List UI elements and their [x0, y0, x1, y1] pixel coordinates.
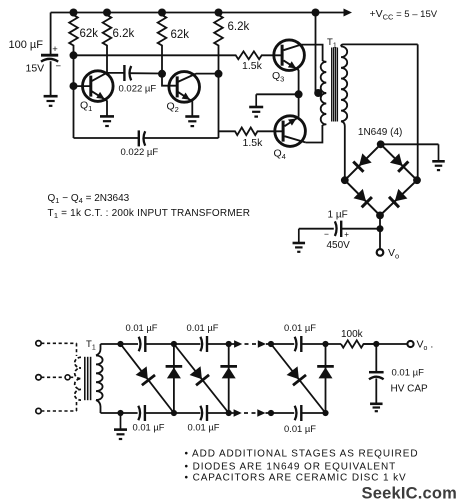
svg-text:0.022 µF: 0.022 µF [121, 147, 159, 158]
svg-text:+: + [52, 44, 58, 55]
svg-text:−: − [56, 61, 62, 72]
svg-text:T1: T1 [86, 339, 96, 352]
svg-text:HV CAP: HV CAP [391, 384, 429, 395]
svg-text:1N649 (4): 1N649 (4) [358, 127, 402, 138]
svg-text:6.2k: 6.2k [113, 28, 135, 40]
svg-text:+VCC = 5 – 15V: +VCC = 5 – 15V [370, 8, 438, 22]
svg-text:1.5k: 1.5k [243, 137, 264, 149]
svg-text:+: + [344, 230, 349, 239]
svg-text:0.01 µF: 0.01 µF [284, 423, 316, 434]
svg-text:Q4: Q4 [274, 148, 286, 162]
svg-text:Vo .: Vo . [417, 339, 434, 353]
svg-text:−: − [324, 229, 329, 239]
svg-text:0.022 µF: 0.022 µF [119, 84, 157, 95]
svg-text:• DIODES ARE 1N649 OR EQUIVALE: • DIODES ARE 1N649 OR EQUIVALENT [185, 462, 397, 473]
svg-text:6.2k: 6.2k [228, 21, 250, 33]
svg-text:62k: 62k [171, 29, 190, 41]
svg-text:Q1: Q1 [80, 100, 92, 114]
svg-text:0.01 µF: 0.01 µF [187, 322, 219, 333]
svg-text:15V: 15V [26, 63, 45, 75]
svg-text:SeekIC.com: SeekIC.com [362, 484, 458, 501]
svg-text:62k: 62k [80, 28, 99, 40]
svg-text:• ADD ADDITIONAL STAGES AS REQ: • ADD ADDITIONAL STAGES AS REQUIRED [185, 448, 419, 459]
svg-text:0.01 µF: 0.01 µF [133, 422, 165, 433]
svg-text:0.01 µF: 0.01 µF [188, 422, 220, 433]
svg-text:450V: 450V [327, 240, 351, 251]
svg-text:0.01 µF: 0.01 µF [126, 322, 158, 333]
svg-text:Vo: Vo [388, 247, 399, 261]
svg-text:T1 = 1k C.T. : 200k INPUT TRAN: T1 = 1k C.T. : 200k INPUT TRANSFORMER [48, 208, 251, 220]
svg-text:100 µF: 100 µF [9, 39, 44, 51]
svg-text:Q1 − Q4 = 2N3643: Q1 − Q4 = 2N3643 [48, 193, 130, 205]
svg-text:• CAPACITORS ARE CERAMIC DISC: • CAPACITORS ARE CERAMIC DISC 1 kV [185, 473, 407, 484]
svg-text:Q2: Q2 [167, 101, 179, 115]
svg-text:T1: T1 [327, 37, 337, 50]
svg-text:1 µF: 1 µF [328, 210, 348, 221]
svg-text:100k: 100k [341, 329, 364, 340]
svg-text:0.01 µF: 0.01 µF [392, 368, 425, 379]
svg-text:Q3: Q3 [272, 70, 284, 84]
svg-text:0.01 µF: 0.01 µF [284, 322, 316, 333]
svg-text:1.5k: 1.5k [242, 60, 263, 72]
